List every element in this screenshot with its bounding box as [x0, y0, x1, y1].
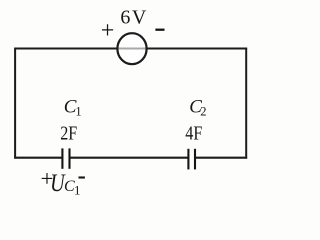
wire bottom-right (C2 to right corner): [196, 157, 247, 159]
svg-text:1: 1: [75, 104, 81, 118]
capacitor C1 plates: [62, 148, 69, 168]
svg-text:6V: 6V: [120, 6, 147, 28]
wire right side: [245, 48, 247, 159]
svg-text:+: +: [101, 18, 115, 44]
label C1: [64, 97, 82, 119]
svg-text:2: 2: [200, 105, 206, 119]
svg-text:4F: 4F: [185, 123, 202, 145]
capacitor C2 plates: [188, 149, 195, 170]
polarity - of source: [155, 29, 164, 31]
label C2: [189, 97, 206, 119]
wire bottom-middle (C1 to C2): [70, 157, 187, 159]
label UC1 (voltage across C1): [50, 170, 80, 197]
wire bottom-left (left corner to C1): [14, 157, 61, 159]
wire left side: [14, 48, 16, 159]
voltage source V1 (6V) circle symbol: [117, 33, 146, 64]
polarity - of UC1: [79, 176, 85, 178]
svg-text:1: 1: [74, 182, 81, 197]
svg-text:2F: 2F: [60, 123, 77, 145]
wire top (node from + terminal to - terminal across top): [14, 48, 247, 50]
